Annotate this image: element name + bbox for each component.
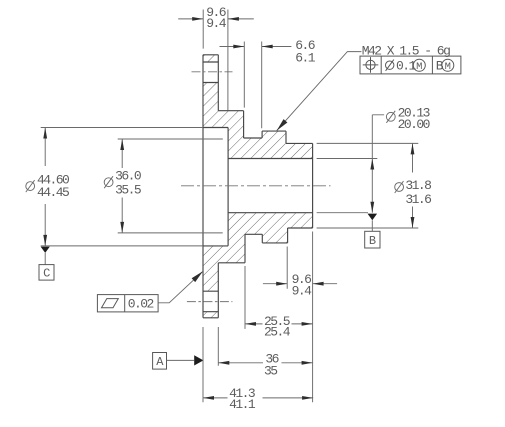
svg-text:B: B — [369, 234, 376, 248]
center line main axis — [181, 185, 331, 187]
svg-text:20.00: 20.00 — [398, 117, 430, 132]
svg-text:A: A — [156, 355, 164, 369]
dim 36/35 — [218, 327, 312, 366]
position symbol — [366, 60, 375, 69]
hatch flange top cap — [203, 55, 218, 62]
parallelism leader — [158, 271, 203, 303]
dim dia 31.8/31.6 — [317, 143, 419, 228]
hatch flange bottom cap — [203, 312, 218, 318]
svg-text:M: M — [416, 61, 422, 73]
dim 41.3/41.1 — [203, 327, 313, 402]
datum B — [368, 214, 378, 221]
dim 9.6/9.4 bottom — [263, 247, 337, 289]
datum C — [41, 247, 50, 253]
bolt hole center line top — [192, 71, 233, 73]
parallelism frame — [97, 295, 158, 312]
bolt hole edges — [203, 62, 218, 312]
svg-text:25.4: 25.4 — [264, 324, 291, 339]
svg-text:35.5: 35.5 — [115, 182, 141, 197]
thread callout M42 X 1.5 - 6g leader — [277, 52, 362, 131]
bolt hole center line bottom — [187, 301, 233, 303]
svg-text:M: M — [445, 61, 451, 73]
svg-text:41.1: 41.1 — [229, 397, 256, 412]
svg-text:0.02: 0.02 — [128, 297, 154, 312]
recess / bore edges — [203, 128, 313, 246]
part outline — [203, 55, 313, 318]
datum A — [153, 353, 167, 370]
svg-text:44.45: 44.45 — [37, 185, 69, 200]
svg-text:9.4: 9.4 — [206, 16, 227, 31]
svg-text:6.1: 6.1 — [295, 51, 316, 66]
dim 9.6/9.4 top — [178, 10, 254, 111]
svg-text:31.6: 31.6 — [405, 192, 431, 207]
svg-text:31.8: 31.8 — [405, 178, 431, 193]
dia 0.1 M — [386, 61, 394, 69]
dim 6.6/6.1 — [220, 42, 292, 129]
dim 25.5/25.4 — [245, 232, 313, 403]
svg-text:35: 35 — [264, 364, 277, 379]
dim dia 36.0/35.5 — [118, 139, 223, 233]
dim dia 20.13/20.00 — [317, 115, 385, 213]
position feature control frame — [360, 56, 461, 74]
dim dia 44.60/44.45 — [41, 128, 203, 246]
svg-text:B: B — [436, 58, 444, 73]
svg-text:9.4: 9.4 — [292, 284, 313, 299]
svg-text:C: C — [43, 266, 50, 280]
hatch upper section — [203, 83, 313, 159]
hatch lower section — [203, 213, 313, 292]
